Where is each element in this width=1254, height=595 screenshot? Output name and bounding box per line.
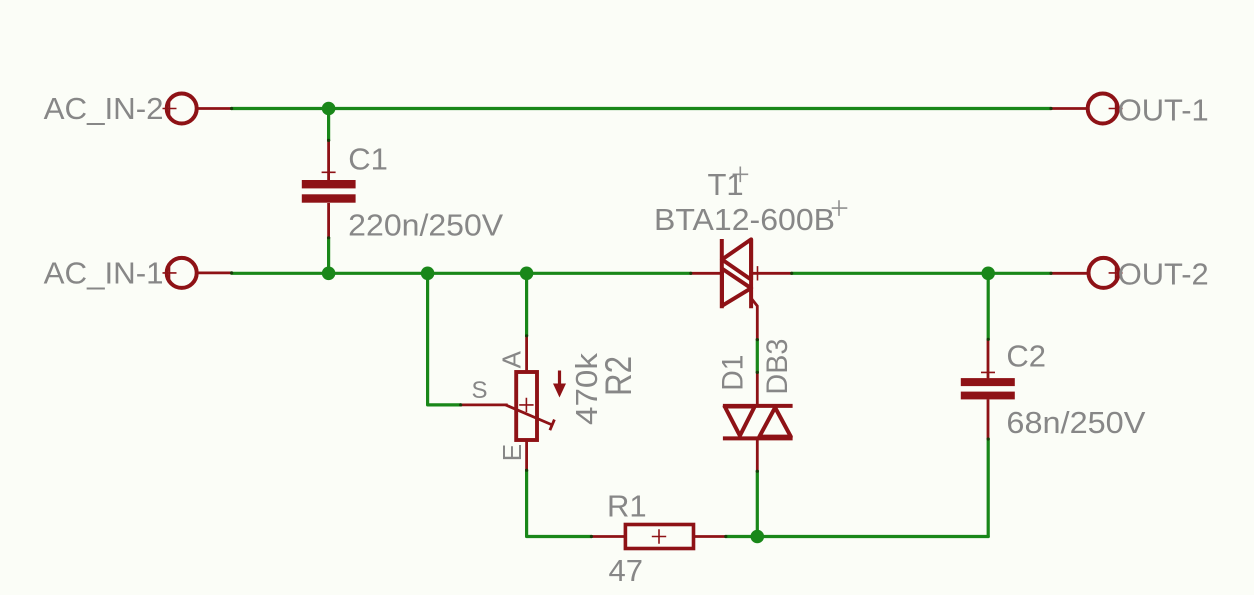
svg-text:BTA12-600B: BTA12-600B — [654, 202, 835, 237]
svg-text:T1: T1 — [708, 167, 744, 202]
svg-text:220n/250V: 220n/250V — [348, 207, 503, 242]
svg-text:C2: C2 — [1006, 338, 1046, 373]
svg-text:R1: R1 — [607, 489, 647, 524]
svg-text:47: 47 — [609, 553, 643, 588]
svg-text:A: A — [496, 350, 526, 368]
svg-text:OUT-2: OUT-2 — [1118, 256, 1209, 291]
svg-text:C1: C1 — [348, 142, 388, 177]
svg-text:68n/250V: 68n/250V — [1006, 405, 1145, 440]
svg-text:D1: D1 — [717, 355, 750, 391]
svg-text:AC_IN-2: AC_IN-2 — [44, 91, 164, 126]
svg-text:S: S — [472, 377, 488, 404]
svg-text:E: E — [497, 444, 527, 461]
svg-text:AC_IN-1: AC_IN-1 — [44, 256, 164, 291]
svg-text:OUT-1: OUT-1 — [1118, 92, 1209, 127]
svg-text:R2: R2 — [598, 356, 639, 396]
svg-text:DB3: DB3 — [761, 339, 794, 395]
